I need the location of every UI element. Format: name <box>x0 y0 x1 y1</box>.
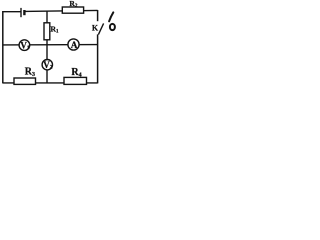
annotation Cyrillic letter b at right edge <box>109 12 115 30</box>
wire top segment battery to R2 to top-right corner <box>24 10 97 11</box>
middle wire <box>3 44 98 46</box>
resistor R1 <box>44 23 50 40</box>
svg-text:A: A <box>71 40 78 50</box>
svg-text:K: K <box>92 24 99 33</box>
switch K blade <box>98 23 103 34</box>
wire R1 to middle node <box>46 40 48 46</box>
wire V2 branch <box>46 45 48 83</box>
right rail lower wire <box>97 34 99 83</box>
wire top-left segment <box>3 11 21 13</box>
right rail upper wire <box>97 10 99 21</box>
voltmeter V2 <box>42 59 53 70</box>
wire R1 branch <box>46 11 48 23</box>
resistor R2 <box>62 7 83 13</box>
left rail wire <box>2 11 4 83</box>
battery cell <box>21 8 24 17</box>
resistor R4 <box>64 77 87 84</box>
voltmeter V1 <box>19 40 30 51</box>
ammeter A <box>68 39 79 50</box>
bottom wire <box>3 82 98 84</box>
resistor R3 <box>14 78 36 84</box>
